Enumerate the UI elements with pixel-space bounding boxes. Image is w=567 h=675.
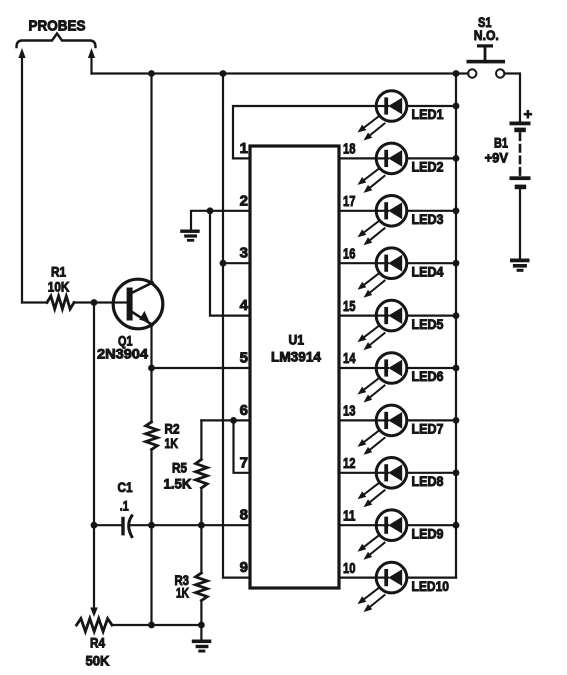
resistor R3	[196, 573, 208, 601]
wire R3 to bottom node	[200, 601, 202, 626]
svg-text:12: 12	[343, 455, 356, 472]
svg-text:6: 6	[240, 402, 248, 419]
wire pin 5	[152, 367, 251, 369]
junction left rail / C1	[91, 522, 98, 529]
wire top supply rail	[92, 72, 469, 74]
wire battery negative to ground	[519, 189, 521, 259]
svg-text:11: 11	[343, 507, 356, 524]
junction R5 / R3 / pin 8 row	[198, 522, 205, 529]
svg-text:9: 9	[240, 559, 248, 576]
junction top rail / middle rail	[220, 70, 227, 77]
svg-text:C1: C1	[118, 479, 133, 495]
junction R2 / pin 8 row	[148, 522, 155, 529]
junction LED bus / LED7 row	[453, 417, 460, 424]
LED6	[339, 353, 456, 403]
wire C1 to pin 8	[130, 524, 251, 526]
wire pin5 node to R2	[150, 368, 152, 422]
svg-text:LED1: LED1	[412, 106, 444, 122]
svg-text:R5: R5	[172, 460, 187, 476]
svg-text:2: 2	[240, 192, 248, 209]
wire pin 7 jog	[234, 420, 251, 472]
svg-text:.1: .1	[120, 498, 129, 514]
svg-text:18: 18	[343, 141, 356, 158]
wire pin 4 jog	[210, 211, 250, 316]
LED7	[339, 405, 456, 455]
junction pin 2 / pin 4 jog	[207, 207, 214, 214]
svg-text:LM3914: LM3914	[271, 349, 321, 365]
wire bottom node to ground	[200, 625, 202, 640]
junction top rail / Q1 collector	[148, 70, 155, 77]
wire switch to battery positive	[504, 74, 520, 122]
junction R2 rail / bottom wire	[148, 622, 155, 629]
junction LED bus / LED5 row	[453, 312, 460, 319]
LED3	[339, 196, 456, 246]
resistor R4	[77, 619, 113, 632]
LED8	[339, 458, 456, 508]
resistor R5	[196, 460, 208, 489]
op-amp U1 LM3914 IC body	[250, 146, 339, 588]
junction pin 6 / pin 7 jog	[230, 417, 237, 424]
svg-text:10: 10	[343, 560, 356, 577]
junction LED bus / LED9 row	[453, 522, 460, 529]
LED4	[339, 248, 456, 298]
ground (pin 2)	[180, 230, 200, 233]
svg-text:3: 3	[240, 245, 248, 262]
resistor R2	[146, 422, 158, 450]
svg-text:17: 17	[343, 193, 356, 210]
wire left rail to C1	[94, 524, 122, 526]
svg-text:R4: R4	[90, 635, 105, 651]
wire R1 to Q1 base	[74, 301, 127, 303]
junction LED bus / LED2 row	[453, 155, 460, 162]
resistor R1	[47, 296, 74, 309]
svg-text:4: 4	[240, 297, 249, 314]
LED1	[358, 91, 457, 141]
transistor Q1	[113, 279, 163, 329]
svg-text:+9V: +9V	[485, 150, 509, 166]
svg-text:B1: B1	[494, 135, 508, 151]
junction Q1 emitter / pin 5 / R2	[148, 365, 155, 372]
svg-text:13: 13	[343, 403, 356, 420]
svg-text:1: 1	[240, 140, 248, 157]
svg-text:LED6: LED6	[412, 368, 444, 384]
junction LED bus / LED3 row	[453, 207, 460, 214]
svg-text:7: 7	[240, 454, 248, 471]
wire R2 to pin 8 row	[150, 450, 152, 526]
wire Q1 collector to top rail	[150, 74, 152, 284]
LED5	[339, 300, 456, 350]
ground (bottom)	[192, 640, 212, 644]
ground (battery)	[510, 259, 530, 263]
junction LED bus / LED8 row	[453, 469, 460, 476]
svg-text:LED4: LED4	[412, 263, 444, 279]
svg-text:16: 16	[343, 245, 356, 262]
svg-text:R1: R1	[51, 264, 66, 280]
svg-text:LED8: LED8	[412, 473, 444, 489]
wire pin 6	[201, 419, 250, 421]
wire probe left to R1	[22, 301, 47, 303]
svg-text:LED7: LED7	[412, 421, 444, 437]
svg-text:LED5: LED5	[412, 316, 444, 332]
LED9	[339, 510, 456, 560]
junction LED bus / LED1 row	[453, 103, 460, 110]
svg-text:+: +	[524, 106, 533, 123]
junction LED bus / LED4 row	[453, 260, 460, 267]
wire R2 bottom rail down to R4 row	[150, 525, 152, 625]
svg-text:14: 14	[343, 350, 356, 367]
wire Q1 emitter down to pin 5 node	[150, 325, 152, 368]
battery B1 dashed link	[519, 134, 522, 177]
svg-text:N.O.: N.O.	[474, 27, 499, 43]
svg-text:LED9: LED9	[412, 525, 444, 541]
svg-text:LED10: LED10	[412, 578, 450, 594]
wire pin 1 loop to LED1	[233, 106, 376, 158]
battery B1 top cell	[510, 122, 531, 126]
svg-text:1K: 1K	[176, 585, 189, 601]
svg-text:15: 15	[343, 298, 356, 315]
probe tip arrow (left probe)	[18, 48, 25, 58]
LED10	[339, 562, 456, 612]
junction middle rail / pin 3	[220, 260, 227, 267]
svg-text:1K: 1K	[165, 435, 179, 451]
capacitor C1	[121, 517, 124, 536]
wire pin 8 row to R3	[200, 525, 202, 573]
switch S1 pushbutton (plunger and bar)	[477, 44, 493, 47]
switch S1 left contact	[468, 69, 476, 77]
svg-text:U1: U1	[289, 332, 305, 348]
wire middle rail (top rail down to pin 9)	[223, 74, 250, 578]
svg-text:10K: 10K	[48, 279, 70, 295]
wire pin 3	[223, 262, 250, 264]
svg-text:8: 8	[240, 507, 248, 524]
svg-text:LED2: LED2	[412, 159, 444, 175]
svg-text:2N3904: 2N3904	[97, 346, 148, 362]
wire pin 2	[191, 211, 250, 229]
wire LED cathode bus	[455, 74, 457, 578]
wire pin 6 to R5	[200, 420, 202, 459]
svg-text:LED3: LED3	[412, 211, 444, 227]
junction top rail / LED bus	[453, 70, 460, 77]
probes brace	[17, 34, 96, 48]
battery B1 bottom cell	[510, 176, 531, 180]
wire left rail (R1 junction down to R4 wiper)	[93, 303, 95, 608]
switch S1 right contact	[496, 69, 504, 77]
LED2	[339, 143, 456, 193]
junction R1 / left rail	[91, 299, 98, 306]
wire bottom (R4 to ground node)	[112, 624, 201, 626]
probe tip arrow (right probe)	[88, 48, 95, 58]
svg-text:5: 5	[240, 350, 248, 367]
potentiometer R4 wiper arrow	[90, 608, 98, 618]
svg-text:50K: 50K	[86, 653, 110, 669]
junction bottom node (R3/R4/ground)	[198, 622, 205, 629]
wire R5 to pin 8 row	[200, 488, 202, 525]
junction LED bus / LED6 row	[453, 365, 460, 372]
svg-text:1.5K: 1.5K	[164, 476, 192, 492]
